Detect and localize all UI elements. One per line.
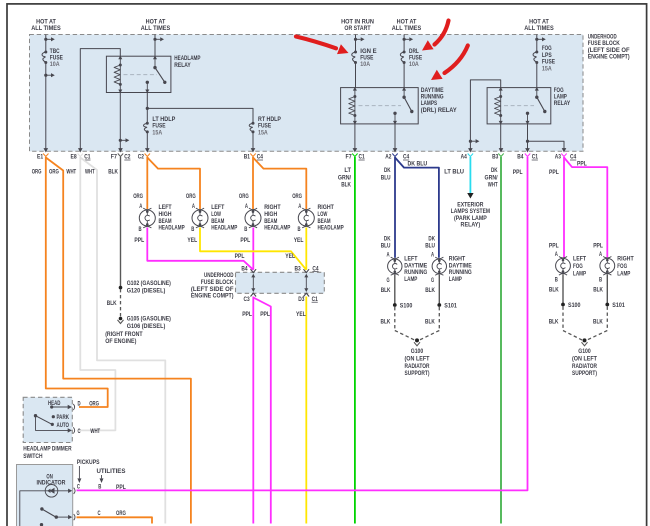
- svg-text:HEADLAMP: HEADLAMP: [159, 225, 185, 232]
- svg-text:BLU: BLU: [425, 243, 435, 250]
- fuse TBC FUSE 10A: [44, 51, 47, 54]
- connector pin B3: [499, 148, 504, 152]
- svg-text:A4: A4: [461, 155, 468, 161]
- svg-text:B: B: [191, 227, 195, 233]
- svg-text:HEADLAMP: HEADLAMP: [318, 225, 344, 232]
- svg-text:A: A: [192, 204, 196, 210]
- svg-text:RELAY: RELAY: [174, 62, 191, 69]
- svg-text:BLU: BLU: [381, 174, 391, 181]
- svg-text:C: C: [98, 511, 102, 517]
- svg-text:15A: 15A: [542, 65, 552, 72]
- connector pin E8 C1: [78, 148, 83, 152]
- svg-text:BLK: BLK: [381, 318, 391, 325]
- svg-text:BLK: BLK: [593, 318, 603, 325]
- svg-text:GRN/: GRN/: [485, 174, 498, 181]
- svg-text:B: B: [599, 277, 603, 283]
- connector pin E1: [44, 148, 49, 152]
- svg-text:INDICATOR: INDICATOR: [37, 480, 66, 487]
- svg-text:10A: 10A: [409, 61, 419, 68]
- svg-text:ENGINE COMPT): ENGINE COMPT): [588, 54, 630, 61]
- svg-text:A2: A2: [385, 155, 392, 161]
- svg-text:S101: S101: [612, 303, 625, 309]
- flow arrow below TBC fuse: [44, 74, 47, 77]
- wire FOG LPS fuse feed: [536, 35, 538, 53]
- wire YEL left low to fuse block B3: [200, 228, 306, 270]
- svg-text:G102 (GASOLINE): G102 (GASOLINE): [127, 281, 171, 287]
- svg-text:A3: A3: [555, 155, 562, 161]
- svg-text:WHT: WHT: [488, 182, 498, 189]
- wire dashed converge right DRL: [420, 331, 440, 341]
- svg-text:A: A: [387, 253, 391, 259]
- DRL relay coil: [353, 87, 357, 91]
- svg-text:ORG: ORG: [292, 193, 302, 200]
- svg-text:G: G: [431, 278, 434, 284]
- svg-text:ORG: ORG: [89, 400, 99, 407]
- wire fog relay coil to connector B3: [500, 124, 502, 149]
- wire DRL fuse feed: [403, 35, 405, 53]
- headlamp switch pin G (ORG): [68, 515, 72, 519]
- wire BLK F7 to splice: [120, 157, 122, 288]
- svg-text:SUPPORT): SUPPORT): [405, 371, 430, 377]
- wire hot feed to headlamp relay switch: [154, 35, 156, 57]
- wire BLK RIGHT fog lamp to splice S101: [606, 274, 608, 304]
- relay K3 FOG LAMP RELAY box: [487, 88, 551, 124]
- svg-text:PPL: PPL: [242, 311, 252, 318]
- flow arrow on IGN E feed: [354, 38, 357, 41]
- svg-text:D: D: [78, 401, 82, 407]
- flow arrow on A4 wire: [469, 140, 472, 143]
- connector pin B4 C1: [525, 148, 530, 152]
- wire YEL right low to fuse block B3: [305, 228, 307, 270]
- svg-text:RELAY: RELAY: [554, 100, 571, 107]
- svg-text:B4: B4: [241, 266, 248, 272]
- wire dashed converge left DRL: [395, 331, 415, 341]
- svg-text:DK BLU: DK BLU: [408, 161, 428, 168]
- wire BLK LEFT DRL lamp to splice S100: [394, 274, 396, 305]
- svg-text:RELAY): RELAY): [461, 222, 481, 229]
- svg-text:DK: DK: [428, 235, 435, 242]
- wire headlamp relay coil to connector F7: [119, 93, 121, 149]
- svg-text:RADIATOR: RADIATOR: [405, 364, 431, 370]
- svg-text:OF ENGINE): OF ENGINE): [105, 339, 136, 345]
- DRL relay switch: [402, 87, 406, 91]
- svg-text:OR START: OR START: [344, 25, 370, 32]
- svg-text:BLK: BLK: [549, 318, 559, 325]
- ground G105/G106: [119, 317, 123, 321]
- svg-text:B: B: [244, 227, 248, 233]
- svg-text:PPL: PPL: [513, 169, 523, 176]
- headlamp relay coil: [118, 56, 122, 60]
- wire DRL fuse to DRL relay switch: [403, 63, 405, 88]
- annotation red arrow 3 (DRL relay): [445, 46, 468, 74]
- wire WHT E8 to dimmer switch pin C: [79, 157, 115, 431]
- svg-text:S101: S101: [444, 303, 457, 309]
- fuse block pin B3 C4 (top): [304, 269, 310, 272]
- wire WHT splice diagonal branch: [80, 158, 165, 524]
- junction fog output split: [526, 140, 529, 143]
- svg-text:SWITCH: SWITCH: [23, 453, 43, 460]
- wire BLK dashed RIGHT fog to ground: [606, 307, 608, 331]
- svg-text:HEADLAMP: HEADLAMP: [211, 225, 237, 232]
- connector pin F7 C2: [118, 148, 123, 152]
- annotation red arrow 1 (IGN E fuse): [296, 37, 336, 49]
- wire PPL branch to right fog lamp: [564, 158, 607, 258]
- wire BLK RIGHT DRL lamp to splice S101: [438, 274, 440, 305]
- connector pin A3 C4: [562, 148, 567, 152]
- svg-text:WHT: WHT: [90, 428, 100, 435]
- flow arrow on DRL feed: [403, 38, 406, 41]
- svg-text:ENGINE COMPT): ENGINE COMPT): [191, 293, 234, 300]
- switch S2 headlamp switch box (ON INDICATOR): [17, 465, 73, 526]
- svg-text:E8: E8: [71, 155, 78, 161]
- splice S101: [437, 303, 441, 307]
- headlamp relay internal dashed link: [124, 74, 158, 76]
- svg-text:PPL: PPL: [134, 237, 144, 244]
- svg-text:PPL: PPL: [240, 237, 250, 244]
- svg-text:C3: C3: [244, 297, 251, 303]
- svg-text:UTILITIES: UTILITIES: [97, 468, 126, 475]
- svg-text:ORG: ORG: [32, 169, 42, 176]
- underhood fuse block (lower pass-through): [236, 272, 325, 293]
- svg-text:FOG: FOG: [573, 263, 583, 270]
- svg-text:RIGHT: RIGHT: [617, 256, 634, 263]
- svg-text:PPL: PPL: [593, 242, 603, 249]
- dimmer switch pin C: [68, 428, 72, 432]
- indicator lamp: [20, 491, 71, 526]
- svg-text:ORG: ORG: [133, 193, 143, 200]
- svg-text:G105 (GASOLINE): G105 (GASOLINE): [127, 317, 171, 323]
- svg-text:B: B: [98, 485, 102, 491]
- svg-text:BLK: BLK: [108, 169, 118, 176]
- splice dot G102 junction: [119, 286, 123, 290]
- svg-text:S100: S100: [568, 303, 581, 309]
- svg-text:YEL: YEL: [294, 237, 304, 244]
- svg-text:15A: 15A: [152, 129, 162, 136]
- wire PPL left high to fuse block B4: [147, 228, 253, 270]
- svg-text:SUPPORT): SUPPORT): [572, 371, 597, 377]
- wire BLK dashed to ground: [120, 289, 122, 319]
- svg-text:A: A: [245, 204, 249, 210]
- svg-text:HEADLAMP: HEADLAMP: [264, 225, 290, 232]
- svg-text:A: A: [431, 253, 435, 259]
- relay U1 HEADLAMP RELAY box: [106, 56, 170, 92]
- svg-text:F7: F7: [346, 155, 353, 161]
- underhood fuse block (dashed outline, top): [30, 35, 584, 152]
- fuse RT HDLP FUSE 15A: [252, 122, 255, 125]
- fuse DRL FUSE 10A: [403, 51, 406, 54]
- fog relay internal dashed link: [504, 105, 534, 107]
- svg-text:WHT: WHT: [66, 169, 76, 176]
- svg-text:G100: G100: [578, 349, 591, 355]
- headlamp switch pin C (PPL): [68, 489, 72, 493]
- svg-text:F7: F7: [111, 155, 118, 161]
- fuse IGN E FUSE 10A: [354, 51, 357, 54]
- wire BLK dashed RIGHT DRL to ground: [438, 307, 440, 331]
- svg-text:WHT: WHT: [85, 169, 95, 176]
- annotation red arrow 2 (DRL fuse): [435, 21, 449, 45]
- svg-text:DK: DK: [491, 167, 498, 174]
- wire PPL C3 diagonal branch down: [253, 298, 270, 524]
- svg-text:DK: DK: [384, 235, 391, 242]
- svg-text:PPL: PPL: [260, 311, 270, 318]
- fuse block internal arrow right: [305, 276, 307, 290]
- wire LT HDLP fuse to connector C2: [146, 132, 148, 149]
- svg-text:10A: 10A: [360, 61, 370, 68]
- fuse FOG LPS FUSE 15A: [535, 51, 538, 54]
- relay K2 DAYTIME RUNNING LAMPS (DRL) RELAY box: [341, 88, 419, 124]
- svg-text:B3: B3: [492, 155, 499, 161]
- fog relay coil: [499, 87, 503, 91]
- headlamp switch lower contact and lever: [40, 507, 43, 510]
- svg-text:E1: E1: [37, 155, 44, 161]
- svg-text:C2: C2: [138, 155, 145, 161]
- wire A4 to fog relay coil: [470, 80, 500, 149]
- connector pin A4: [468, 148, 473, 152]
- svg-text:C: C: [78, 429, 82, 435]
- wire ORG C2 to left high beam headlamp: [146, 157, 148, 209]
- fuse LT HDLP FUSE 15A: [146, 122, 149, 125]
- wire dashed converge right fog: [587, 331, 607, 341]
- svg-text:BLK: BLK: [381, 287, 391, 294]
- svg-text:BLK: BLK: [425, 318, 435, 325]
- svg-text:ALL TIMES: ALL TIMES: [31, 25, 61, 32]
- fuse block pin D3 C1 (bottom): [304, 293, 310, 296]
- wire ORG headlamp switch to bottom: [77, 517, 153, 523]
- svg-text:YEL: YEL: [285, 253, 295, 260]
- wire BLK LEFT fog lamp to splice S100: [562, 274, 564, 304]
- svg-text:BLK: BLK: [107, 300, 117, 307]
- svg-text:ORG: ORG: [49, 169, 59, 176]
- svg-text:G: G: [387, 278, 390, 284]
- svg-text:(DRL) RELAY: (DRL) RELAY: [421, 107, 458, 114]
- fuse block internal arrow left: [252, 276, 254, 290]
- connector pin B1 C4: [251, 148, 256, 152]
- splice S100: [393, 303, 397, 307]
- fog splice S100: [561, 303, 565, 307]
- wire fog relay output to connector B4: [527, 124, 529, 149]
- svg-text:BLK: BLK: [593, 287, 603, 294]
- svg-text:ALL TIMES: ALL TIMES: [141, 25, 171, 32]
- svg-text:ORG: ORG: [186, 193, 196, 200]
- fog splice S101: [605, 303, 609, 307]
- svg-text:YEL: YEL: [296, 311, 306, 318]
- fuse block pin B4 (top): [251, 269, 257, 272]
- svg-text:PPL: PPL: [549, 169, 559, 176]
- fog relay switch: [535, 87, 539, 91]
- dimmer switch lever: [34, 414, 37, 417]
- svg-text:15A: 15A: [258, 129, 268, 136]
- svg-text:G120 (DIESEL): G120 (DIESEL): [127, 288, 166, 294]
- svg-text:DK: DK: [384, 167, 391, 174]
- svg-text:LAMP: LAMP: [404, 276, 417, 283]
- svg-text:A: A: [139, 204, 143, 210]
- svg-text:ALL TIMES: ALL TIMES: [392, 25, 422, 32]
- svg-text:(RIGHT FRONT: (RIGHT FRONT: [105, 332, 143, 338]
- svg-text:PARK: PARK: [57, 415, 70, 421]
- svg-text:LT: LT: [344, 167, 351, 174]
- svg-text:HEADLAMP DIMMER: HEADLAMP DIMMER: [23, 445, 72, 452]
- svg-text:A: A: [555, 252, 559, 258]
- svg-text:D3: D3: [298, 297, 305, 303]
- svg-text:YEL: YEL: [187, 237, 197, 244]
- svg-text:ALL TIMES: ALL TIMES: [524, 25, 554, 32]
- svg-text:FOG: FOG: [617, 263, 627, 270]
- flow arrow on FOG feed: [535, 38, 538, 41]
- wire branch to connector A3: [528, 141, 565, 149]
- headlamp relay switch: [153, 56, 157, 60]
- DRL relay internal dashed link: [359, 105, 402, 107]
- wire branch to RT HDLP fuse: [147, 108, 253, 123]
- wire TBC fuse to connector E1: [45, 63, 47, 149]
- svg-text:PICKUPS: PICKUPS: [77, 459, 100, 466]
- ground G100 (DRL lamps): [415, 338, 419, 342]
- svg-text:S100: S100: [400, 303, 413, 309]
- svg-text:A: A: [599, 252, 603, 258]
- wire TBC fuse feed: [45, 35, 47, 53]
- switch S1 HEADLAMP DIMMER SWITCH box: [23, 397, 72, 442]
- svg-text:G100: G100: [411, 349, 424, 355]
- svg-text:B: B: [298, 227, 302, 233]
- svg-text:PPL: PPL: [235, 253, 245, 260]
- dimmer switch common wire to pin C: [36, 416, 71, 431]
- svg-text:AUTO: AUTO: [57, 423, 70, 429]
- svg-text:BLK: BLK: [341, 182, 351, 189]
- connector pin A2 C4: [393, 148, 398, 152]
- svg-text:PPL: PPL: [116, 484, 126, 491]
- svg-text:ORG: ORG: [239, 193, 249, 200]
- svg-text:C: C: [77, 485, 81, 491]
- wire E8 to headlamp relay coil: [80, 49, 120, 149]
- svg-text:10A: 10A: [50, 61, 60, 68]
- wire LT GRN F7 down: [354, 157, 356, 524]
- arrow to exterior lamps system: [467, 193, 473, 199]
- connector pin C2: [145, 148, 150, 152]
- wire dashed converge left fog: [563, 331, 582, 341]
- svg-text:BLK: BLK: [425, 287, 435, 294]
- flow arrow on TBC feed: [44, 38, 47, 41]
- wire FOG fuse to fog relay switch: [536, 63, 538, 88]
- svg-text:G: G: [77, 511, 80, 517]
- svg-text:ORG: ORG: [116, 510, 126, 517]
- wire ORG E1 to dimmer switch pin D: [46, 157, 108, 407]
- svg-text:RADIATOR: RADIATOR: [572, 364, 598, 370]
- wire PPL C3 down: [252, 297, 254, 524]
- wire LT BLU A4 to exterior lamps system: [469, 157, 471, 193]
- wire ORG splice diagonal branch: [46, 158, 191, 524]
- wire DRL relay coil to connector F7: [354, 124, 356, 149]
- svg-text:B: B: [555, 277, 559, 283]
- svg-text:B: B: [139, 227, 143, 233]
- svg-text:B3: B3: [295, 266, 302, 272]
- wire ORG branch to right low beam headlamp: [253, 158, 306, 210]
- wire RT HDLP fuse to connector B1: [252, 132, 254, 149]
- wire BLK dashed LEFT fog to ground: [562, 307, 564, 331]
- svg-text:LAMP: LAMP: [449, 276, 462, 283]
- flow arrow on relay coil ground wire: [119, 139, 122, 142]
- wire BLK dashed LEFT DRL to ground: [394, 307, 396, 331]
- wire IGN E feed: [355, 35, 357, 53]
- wire YEL D3 down: [305, 297, 307, 524]
- fuse block pin C3 (bottom): [251, 293, 257, 296]
- svg-text:BLK: BLK: [549, 287, 559, 294]
- svg-text:LEFT: LEFT: [573, 256, 586, 263]
- wire ORG branch to left low beam headlamp: [147, 158, 200, 210]
- svg-text:LT BLU: LT BLU: [444, 169, 464, 176]
- dimmer switch pin D: [68, 405, 72, 409]
- wire DK GRN B3 down: [500, 157, 502, 524]
- svg-text:G106 (DIESEL): G106 (DIESEL): [127, 324, 166, 330]
- svg-text:B4: B4: [517, 155, 524, 161]
- wire PPL right high to fuse block B4: [252, 228, 254, 270]
- svg-text:BLU: BLU: [381, 243, 391, 250]
- wire ORG B1 to right high beam headlamp: [252, 157, 254, 209]
- svg-text:A: A: [298, 204, 302, 210]
- flow arrow on headlamp relay feed: [153, 38, 156, 41]
- svg-text:LAMP: LAMP: [617, 270, 630, 277]
- svg-text:GRN/: GRN/: [338, 174, 351, 181]
- svg-text:HEAD: HEAD: [48, 401, 61, 407]
- wire DRL relay output to connector A2: [394, 124, 396, 149]
- svg-text:B1: B1: [244, 155, 251, 161]
- svg-text:(ON LEFT: (ON LEFT: [405, 357, 430, 363]
- svg-text:PPL: PPL: [549, 242, 559, 249]
- junction relay output split: [146, 107, 149, 110]
- wire IGN E fuse to DRL relay coil: [355, 63, 357, 88]
- wire DK BLU branch to right DRL lamp: [395, 158, 439, 258]
- svg-text:LAMP: LAMP: [573, 270, 586, 277]
- svg-text:(ON LEFT: (ON LEFT: [572, 357, 597, 363]
- wire PPL A3 to left fog lamp: [563, 157, 565, 258]
- ground G100 (fog lamps): [583, 338, 587, 342]
- connector pin F7 C1 (DRL): [353, 148, 358, 152]
- wire headlamp relay output to LT HDLP fuse: [146, 93, 148, 124]
- wire PPL B4 to headlamp switch (long): [77, 157, 528, 491]
- wire DK BLU A2 to left DRL lamp: [394, 157, 396, 258]
